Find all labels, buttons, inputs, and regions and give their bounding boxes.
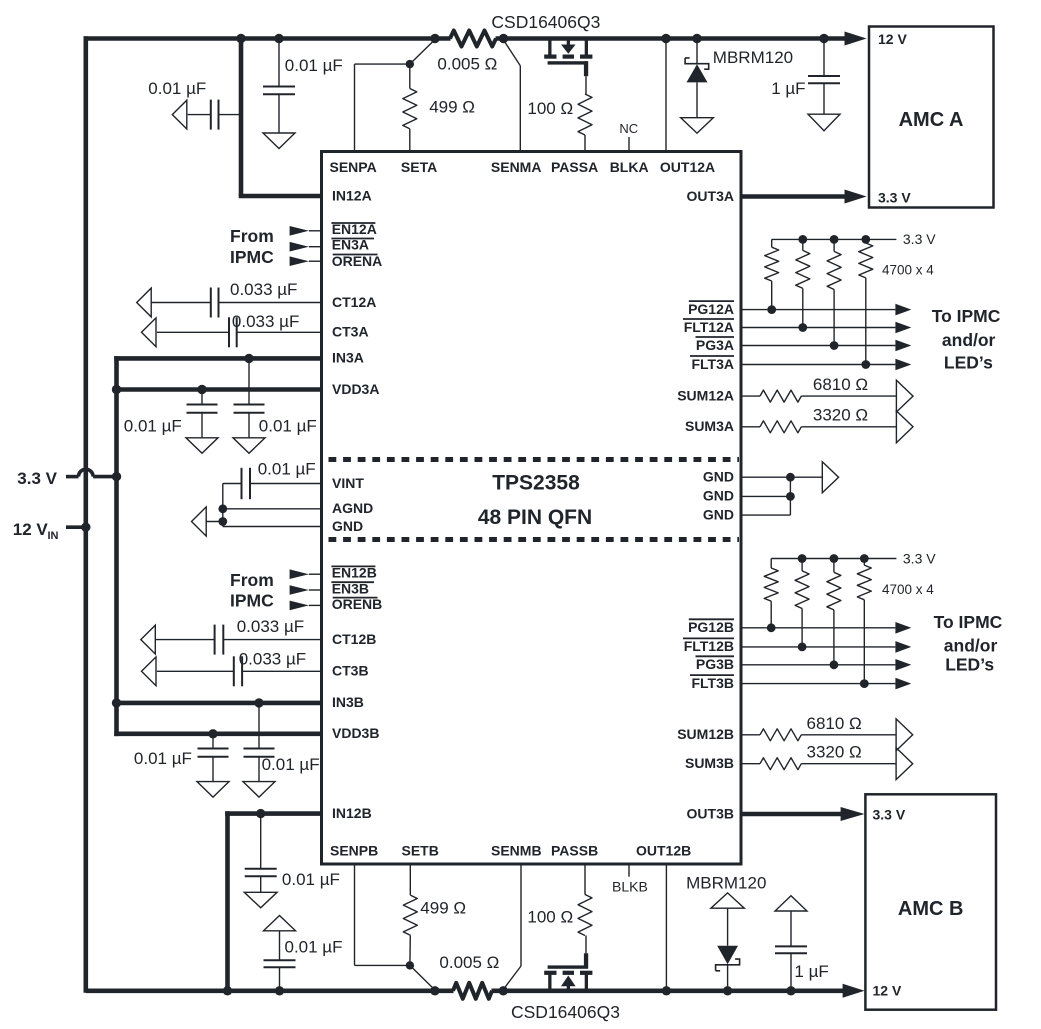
svg-text:GND: GND [332, 518, 363, 534]
svg-text:499 Ω: 499 Ω [420, 899, 466, 918]
svg-text:OUT3A: OUT3A [687, 188, 734, 204]
svg-text:IPMC: IPMC [230, 247, 274, 267]
svg-text:CT12B: CT12B [332, 631, 376, 647]
svg-text:CSD16406Q3: CSD16406Q3 [491, 12, 600, 32]
svg-text:12 V: 12 V [13, 520, 49, 539]
svg-text:CT3B: CT3B [332, 663, 369, 679]
svg-text:MBRM120: MBRM120 [713, 48, 793, 67]
svg-text:MBRM120: MBRM120 [686, 874, 766, 893]
svg-text:AGND: AGND [332, 500, 373, 516]
svg-text:SENPA: SENPA [330, 159, 377, 175]
svg-text:0.01 µF: 0.01 µF [259, 417, 317, 436]
svg-text:0.005 Ω: 0.005 Ω [439, 953, 499, 972]
svg-text:0.01 µF: 0.01 µF [285, 938, 343, 957]
svg-text:PG3B: PG3B [696, 656, 734, 672]
svg-text:AMC B: AMC B [898, 898, 964, 920]
svg-text:3.3 V: 3.3 V [878, 189, 911, 205]
svg-text:From: From [230, 226, 274, 246]
svg-text:SETA: SETA [401, 159, 437, 175]
svg-text:SUM12B: SUM12B [677, 726, 734, 742]
svg-text:1 µF: 1 µF [794, 962, 828, 981]
svg-text:OUT12B: OUT12B [636, 843, 691, 859]
svg-text:LED’s: LED’s [945, 654, 994, 674]
svg-text:100 Ω: 100 Ω [527, 99, 573, 118]
svg-text:FLT12B: FLT12B [684, 638, 734, 654]
svg-text:CT3A: CT3A [332, 324, 369, 340]
svg-text:SENPB: SENPB [330, 843, 378, 859]
svg-text:0.033 µF: 0.033 µF [239, 649, 306, 668]
svg-text:4700 x 4: 4700 x 4 [882, 262, 934, 277]
svg-text:SUM3A: SUM3A [685, 418, 734, 434]
svg-text:BLKA: BLKA [610, 159, 649, 175]
svg-text:IN12B: IN12B [332, 805, 372, 821]
svg-text:6810 Ω: 6810 Ω [807, 714, 862, 733]
svg-text:3.3 V: 3.3 V [873, 807, 906, 823]
svg-text:To IPMC: To IPMC [932, 306, 1001, 326]
svg-text:CT12A: CT12A [332, 294, 376, 310]
svg-text:0.033 µF: 0.033 µF [237, 617, 304, 636]
svg-text:TPS2358: TPS2358 [492, 471, 580, 494]
svg-text:SENMB: SENMB [491, 843, 542, 859]
svg-text:12 V: 12 V [878, 31, 907, 47]
svg-text:6810 Ω: 6810 Ω [813, 375, 868, 394]
svg-text:1 µF: 1 µF [771, 79, 805, 98]
svg-text:499 Ω: 499 Ω [429, 98, 475, 117]
svg-text:and/or: and/or [942, 330, 996, 350]
svg-text:GND: GND [703, 488, 734, 504]
svg-text:0.01 µF: 0.01 µF [124, 417, 182, 436]
svg-text:VINT: VINT [332, 475, 364, 491]
svg-text:FLT12A: FLT12A [684, 319, 734, 335]
svg-text:3320 Ω: 3320 Ω [813, 406, 868, 425]
svg-text:From: From [230, 570, 274, 590]
svg-text:To IPMC: To IPMC [934, 612, 1003, 632]
svg-text:0.01 µF: 0.01 µF [134, 749, 192, 768]
svg-text:IN12A: IN12A [332, 187, 372, 203]
svg-text:PASSA: PASSA [551, 159, 598, 175]
svg-text:SETB: SETB [402, 843, 439, 859]
svg-text:3320 Ω: 3320 Ω [807, 743, 862, 762]
svg-text:SUM12A: SUM12A [677, 387, 734, 403]
svg-text:IN3B: IN3B [332, 694, 364, 710]
svg-text:IN: IN [48, 530, 59, 542]
svg-text:VDD3A: VDD3A [332, 381, 379, 397]
svg-text:CSD16406Q3: CSD16406Q3 [511, 1002, 620, 1022]
svg-text:GND: GND [703, 506, 734, 522]
svg-text:12 V: 12 V [873, 983, 902, 999]
svg-text:3.3 V: 3.3 V [17, 469, 57, 488]
svg-text:0.01 µF: 0.01 µF [262, 755, 320, 774]
svg-text:3.3 V: 3.3 V [903, 231, 936, 247]
svg-text:BLKB: BLKB [612, 879, 648, 895]
svg-text:SUM3B: SUM3B [685, 755, 734, 771]
svg-text:0.005 Ω: 0.005 Ω [437, 55, 497, 74]
svg-text:PG12B: PG12B [688, 619, 734, 635]
svg-text:0.033 µF: 0.033 µF [232, 312, 299, 331]
svg-text:48 PIN QFN: 48 PIN QFN [478, 506, 592, 529]
svg-text:SENMA: SENMA [491, 159, 542, 175]
svg-text:3.3 V: 3.3 V [903, 551, 936, 567]
svg-text:FLT3A: FLT3A [691, 356, 734, 372]
svg-text:PG3A: PG3A [696, 337, 734, 353]
svg-text:4700 x 4: 4700 x 4 [882, 582, 934, 597]
svg-text:AMC A: AMC A [899, 109, 964, 131]
svg-text:FLT3B: FLT3B [691, 675, 734, 691]
svg-text:GND: GND [703, 469, 734, 485]
svg-text:IPMC: IPMC [230, 590, 274, 610]
svg-text:OUT12A: OUT12A [660, 159, 715, 175]
svg-text:0.01 µF: 0.01 µF [282, 870, 340, 889]
svg-text:0.01 µF: 0.01 µF [285, 56, 343, 75]
svg-text:0.033 µF: 0.033 µF [230, 280, 297, 299]
svg-text:PASSB: PASSB [551, 843, 598, 859]
svg-text:NC: NC [619, 121, 638, 136]
svg-text:0.01 µF: 0.01 µF [258, 460, 316, 479]
svg-text:OUT3B: OUT3B [687, 805, 734, 821]
svg-text:and/or: and/or [944, 635, 998, 655]
svg-text:0.01 µF: 0.01 µF [148, 79, 206, 98]
svg-text:PG12A: PG12A [688, 301, 734, 317]
svg-text:VDD3B: VDD3B [332, 725, 379, 741]
svg-text:100 Ω: 100 Ω [527, 908, 573, 927]
svg-text:IN3A: IN3A [332, 350, 364, 366]
svg-text:LED’s: LED’s [944, 353, 993, 373]
